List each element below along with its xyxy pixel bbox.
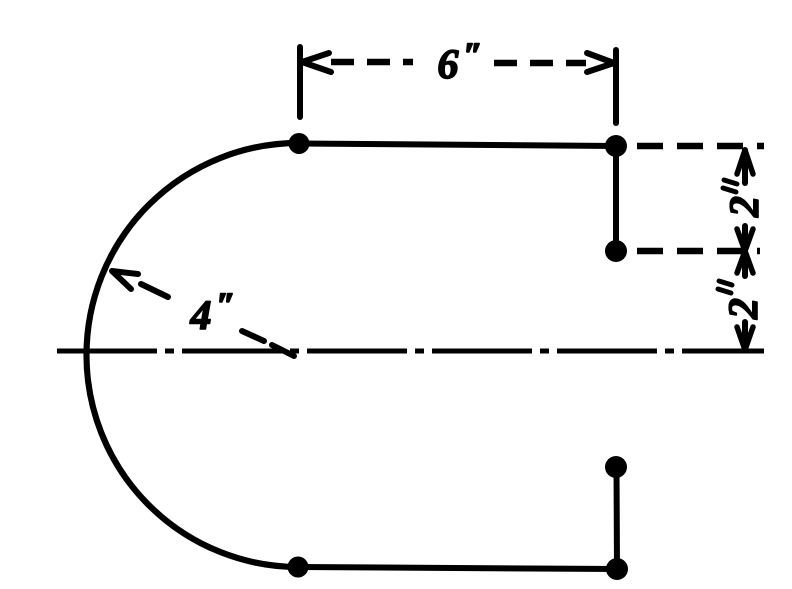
arrowhead down to middle [737, 229, 753, 251]
node dot lower-right bottom [606, 558, 628, 580]
arrowhead 6in left [302, 53, 331, 72]
label 2 inch lower (rotated) [729, 299, 757, 320]
node dot top-left [289, 133, 310, 154]
radius leader dash 3 [272, 345, 294, 356]
arrowhead up at top [737, 150, 753, 174]
bottom edge line [298, 567, 617, 569]
right upper stub line [613, 146, 619, 251]
top edge line [299, 144, 616, 147]
dashed extension from top-right dot [637, 143, 764, 150]
extension line left (6in dim) [297, 47, 303, 117]
dimension line 6in left dashed half [331, 59, 413, 66]
node dot lower-right upper [605, 456, 627, 478]
label 2 inch upper (rotated) [730, 197, 758, 218]
radius leader arrowhead at arc [112, 271, 138, 289]
centerline (dash-dot axis) [57, 349, 764, 354]
node dot right-middle [605, 240, 627, 262]
arrowhead down at bottom [737, 327, 753, 350]
arrowhead up to middle [737, 251, 753, 273]
radius leader dash 1 [141, 284, 168, 297]
extension line right (6in dim) [613, 50, 619, 123]
radius leader dash 2 [242, 331, 264, 341]
vertical dimension shaft middle segment [742, 226, 748, 276]
node dot bottom-left [288, 557, 309, 578]
arrowhead 6in right [587, 53, 614, 72]
semicircular arc R4 (left end of slot) [86, 143, 299, 567]
dimension line 6in right dashed half [494, 60, 586, 67]
label 4 inch [190, 301, 210, 329]
vertical dimension shaft lower segment [742, 322, 748, 349]
right lower stub line [614, 467, 621, 569]
label 6 inch [439, 50, 459, 78]
node dot top-right [605, 135, 627, 157]
dashed extension from right-middle dot [637, 248, 760, 255]
vertical dimension shaft upper segment [742, 150, 748, 183]
